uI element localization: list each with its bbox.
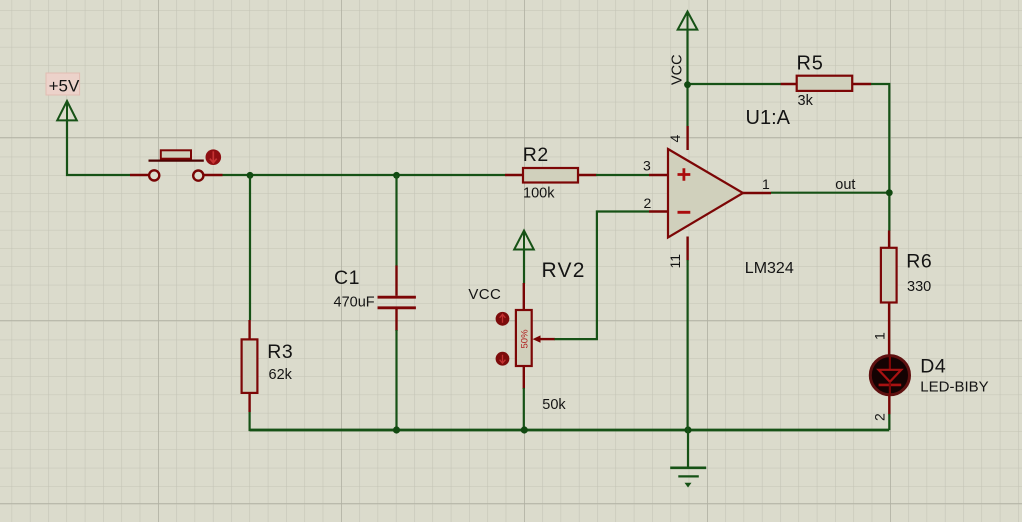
wire op-amp output to right rail <box>771 192 889 194</box>
svg-text:RV2: RV2 <box>542 259 586 282</box>
svg-text:11: 11 <box>667 254 683 269</box>
wire VCC down to pin 4 <box>686 29 688 126</box>
svg-text:VCC: VCC <box>670 54 686 85</box>
contact bar <box>149 160 204 162</box>
wire VCC junction to R5 <box>688 83 782 85</box>
push button <box>130 149 223 180</box>
button cap <box>161 150 191 158</box>
terminal circle left <box>149 170 159 180</box>
svg-text:C1: C1 <box>334 267 360 289</box>
LED D4 <box>870 356 909 415</box>
wire button to R2 <box>223 174 506 176</box>
ground symbol <box>670 430 706 488</box>
wire R3 branch vertical <box>249 175 251 320</box>
wire RV2 to bottom rail <box>523 388 525 430</box>
svg-text:2: 2 <box>872 413 888 421</box>
power symbol +5V <box>46 73 80 120</box>
junction node rail RV2 <box>521 426 528 433</box>
junction node VCC <box>684 81 691 88</box>
svg-text:LED-BIBY: LED-BIBY <box>920 379 988 396</box>
pin right <box>203 174 222 176</box>
potentiometer RV2 <box>496 283 555 389</box>
svg-text:2: 2 <box>644 195 652 211</box>
power symbol VCC at RV2 <box>514 231 534 250</box>
svg-text:R3: R3 <box>267 341 293 363</box>
wire RV2 wiper to op-amp pin 2 <box>555 212 650 340</box>
power symbol VCC at op-amp <box>678 12 698 30</box>
svg-text:LM324: LM324 <box>745 260 794 277</box>
wire bottom rail <box>250 429 890 432</box>
svg-text:50%: 50% <box>520 329 531 349</box>
wire R2 to op-amp pin 3 <box>596 174 649 176</box>
svg-text:+5V: +5V <box>49 76 80 95</box>
wire R5 to right rail down <box>871 84 889 231</box>
terminal circle right <box>193 171 203 181</box>
pin left <box>130 174 150 176</box>
resistor R6 <box>881 231 897 356</box>
resistor R2 <box>505 168 597 183</box>
resistor R3 <box>242 320 258 412</box>
svg-text:R6: R6 <box>906 251 932 273</box>
svg-text:3: 3 <box>643 157 651 173</box>
svg-text:U1:A: U1:A <box>746 107 791 129</box>
junction node at C1 branch <box>393 172 400 179</box>
resistor R5 <box>781 76 872 91</box>
svg-text:470uF: 470uF <box>334 295 375 311</box>
wire +5V down and right to button <box>67 119 130 175</box>
junction node at R3 branch <box>247 172 254 179</box>
svg-text:3k: 3k <box>798 93 814 109</box>
svg-text:62k: 62k <box>269 367 293 383</box>
svg-text:1: 1 <box>872 332 888 340</box>
svg-text:1: 1 <box>762 176 770 192</box>
junction node rail ground <box>684 426 691 433</box>
wire VCC to RV2 <box>523 249 525 285</box>
wire LED to bottom rail corner <box>888 414 890 430</box>
actuator marker <box>206 149 222 165</box>
wire R3 to bottom rail <box>250 412 397 430</box>
svg-text:330: 330 <box>907 279 931 295</box>
svg-text:50k: 50k <box>542 397 566 413</box>
op-amp U1:A <box>649 126 771 261</box>
svg-text:100k: 100k <box>523 185 555 201</box>
junction node out <box>886 189 893 196</box>
svg-text:4: 4 <box>667 135 683 143</box>
junction node rail C1 <box>393 426 400 433</box>
svg-text:R5: R5 <box>797 53 824 75</box>
svg-text:VCC: VCC <box>468 286 501 303</box>
capacitor C1 <box>378 266 416 332</box>
wire C1 branch vertical <box>395 175 397 266</box>
svg-text:R2: R2 <box>523 144 549 166</box>
svg-text:D4: D4 <box>920 356 946 378</box>
svg-text:out: out <box>835 177 855 193</box>
wire C1 to bottom rail <box>395 330 397 430</box>
wire op-amp pin 11 to rail <box>686 260 688 430</box>
